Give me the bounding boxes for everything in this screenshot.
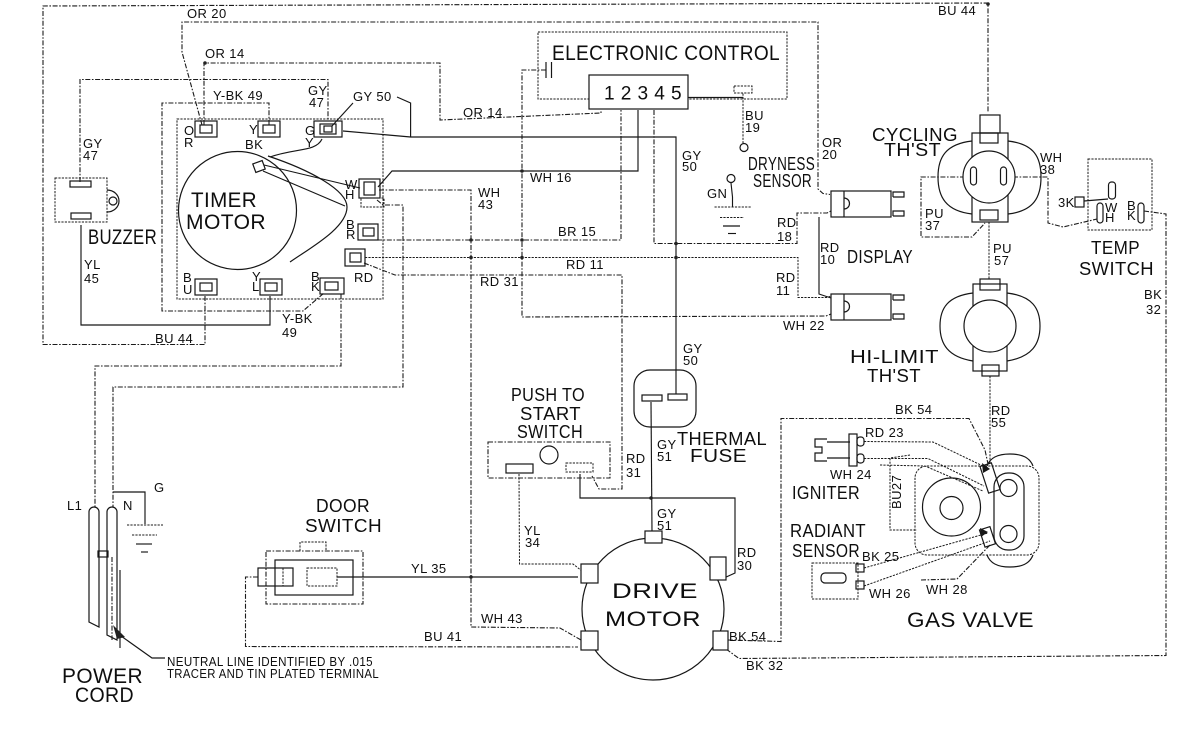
svg-text:45: 45: [84, 271, 99, 286]
svg-text:34: 34: [525, 535, 540, 550]
svg-text:HI-LIMIT: HI-LIMIT: [850, 347, 939, 367]
svg-text:U: U: [183, 282, 193, 297]
svg-text:WH 28: WH 28: [926, 582, 968, 597]
svg-text:51: 51: [657, 518, 672, 533]
svg-text:50: 50: [682, 159, 697, 174]
svg-text:R: R: [184, 135, 194, 150]
svg-text:CORD: CORD: [75, 684, 134, 707]
svg-text:3K: 3K: [1058, 195, 1075, 210]
svg-text:WH 26: WH 26: [869, 586, 911, 601]
svg-text:BU27: BU27: [889, 475, 904, 509]
svg-text:WH 16: WH 16: [530, 170, 572, 185]
svg-text:G: G: [154, 480, 165, 495]
svg-text:SWITCH: SWITCH: [305, 516, 382, 536]
svg-text:OR 20: OR 20: [187, 6, 227, 21]
svg-text:18: 18: [777, 229, 792, 244]
svg-text:TIMER: TIMER: [191, 189, 257, 212]
svg-text:BK 25: BK 25: [862, 549, 899, 564]
svg-text:30: 30: [737, 558, 752, 573]
svg-text:20: 20: [822, 147, 837, 162]
svg-text:GN: GN: [707, 186, 727, 201]
svg-text:DRIVE: DRIVE: [612, 580, 698, 603]
svg-text:L1: L1: [67, 498, 82, 513]
svg-text:PUSH TO: PUSH TO: [511, 385, 585, 405]
svg-text:K: K: [1127, 208, 1136, 223]
svg-text:37: 37: [925, 218, 940, 233]
svg-text:RD 11: RD 11: [566, 257, 604, 272]
svg-text:BU 44: BU 44: [155, 331, 193, 346]
svg-text:GY 50: GY 50: [353, 89, 392, 104]
svg-text:50: 50: [683, 353, 698, 368]
svg-text:BK 32: BK 32: [746, 658, 783, 673]
svg-text:SENSOR: SENSOR: [792, 541, 860, 561]
svg-text:OR 14: OR 14: [205, 46, 245, 61]
svg-text:10: 10: [820, 252, 835, 267]
svg-text:TRACER AND TIN PLATED TERMINAL: TRACER AND TIN PLATED TERMINAL: [167, 667, 379, 681]
svg-text:H: H: [1105, 210, 1115, 225]
svg-text:WH 22: WH 22: [783, 318, 825, 333]
svg-text:BU 41: BU 41: [424, 629, 462, 644]
svg-text:TEMP: TEMP: [1091, 238, 1140, 258]
svg-text:N: N: [123, 498, 133, 513]
svg-text:BK: BK: [1144, 287, 1162, 302]
svg-text:L: L: [252, 279, 260, 294]
svg-text:SWITCH: SWITCH: [1079, 259, 1154, 279]
svg-text:YL 35: YL 35: [411, 561, 447, 576]
svg-text:Y-BK 49: Y-BK 49: [213, 88, 263, 103]
svg-text:11: 11: [776, 283, 790, 298]
svg-text:ELECTRONIC CONTROL: ELECTRONIC CONTROL: [552, 42, 780, 65]
svg-text:TH'ST: TH'ST: [884, 140, 941, 160]
svg-text:RD 23: RD 23: [865, 425, 904, 440]
svg-text:IGNITER: IGNITER: [792, 483, 860, 503]
svg-text:MOTOR: MOTOR: [605, 608, 701, 631]
svg-text:BK: BK: [245, 137, 263, 152]
svg-text:57: 57: [994, 253, 1009, 268]
svg-text:BK 54: BK 54: [895, 402, 932, 417]
svg-text:BR 15: BR 15: [558, 224, 596, 239]
svg-text:Y-BK: Y-BK: [282, 311, 313, 326]
svg-text:WH 24: WH 24: [830, 467, 872, 482]
svg-text:31: 31: [626, 465, 641, 480]
svg-text:K: K: [311, 279, 320, 294]
svg-text:43: 43: [478, 197, 493, 212]
svg-text:R: R: [346, 227, 356, 242]
svg-text:SWITCH: SWITCH: [517, 422, 583, 442]
svg-text:49: 49: [282, 325, 297, 340]
svg-text:FUSE: FUSE: [690, 446, 747, 466]
svg-text:WH 43: WH 43: [481, 611, 523, 626]
svg-text:DISPLAY: DISPLAY: [847, 247, 913, 267]
svg-text:51: 51: [657, 449, 672, 464]
svg-text:RD: RD: [777, 215, 797, 230]
svg-text:H: H: [345, 187, 355, 202]
svg-text:32: 32: [1146, 302, 1161, 317]
svg-text:BUZZER: BUZZER: [88, 226, 157, 249]
svg-text:47: 47: [309, 95, 324, 110]
svg-text:RD 31: RD 31: [480, 274, 519, 289]
svg-text:1 2 3 4 5: 1 2 3 4 5: [604, 84, 682, 105]
svg-text:GAS VALVE: GAS VALVE: [907, 609, 1034, 632]
svg-text:TH'ST: TH'ST: [867, 366, 921, 386]
svg-text:RADIANT: RADIANT: [790, 521, 866, 541]
svg-text:RD: RD: [354, 270, 374, 285]
svg-text:MOTOR: MOTOR: [186, 211, 266, 234]
svg-text:Y: Y: [249, 122, 258, 137]
svg-text:OR 14: OR 14: [463, 105, 503, 120]
svg-text:START: START: [520, 404, 581, 424]
svg-text:47: 47: [83, 148, 98, 163]
svg-text:38: 38: [1040, 162, 1055, 177]
svg-text:YL: YL: [84, 257, 101, 272]
svg-text:Y: Y: [305, 135, 314, 150]
svg-text:BK 54: BK 54: [729, 629, 766, 644]
svg-text:RD: RD: [626, 451, 646, 466]
svg-text:55: 55: [991, 415, 1006, 430]
svg-text:19: 19: [745, 120, 760, 135]
svg-text:BU 44: BU 44: [938, 3, 976, 18]
svg-text:SENSOR: SENSOR: [753, 171, 812, 191]
svg-text:DOOR: DOOR: [316, 496, 370, 516]
